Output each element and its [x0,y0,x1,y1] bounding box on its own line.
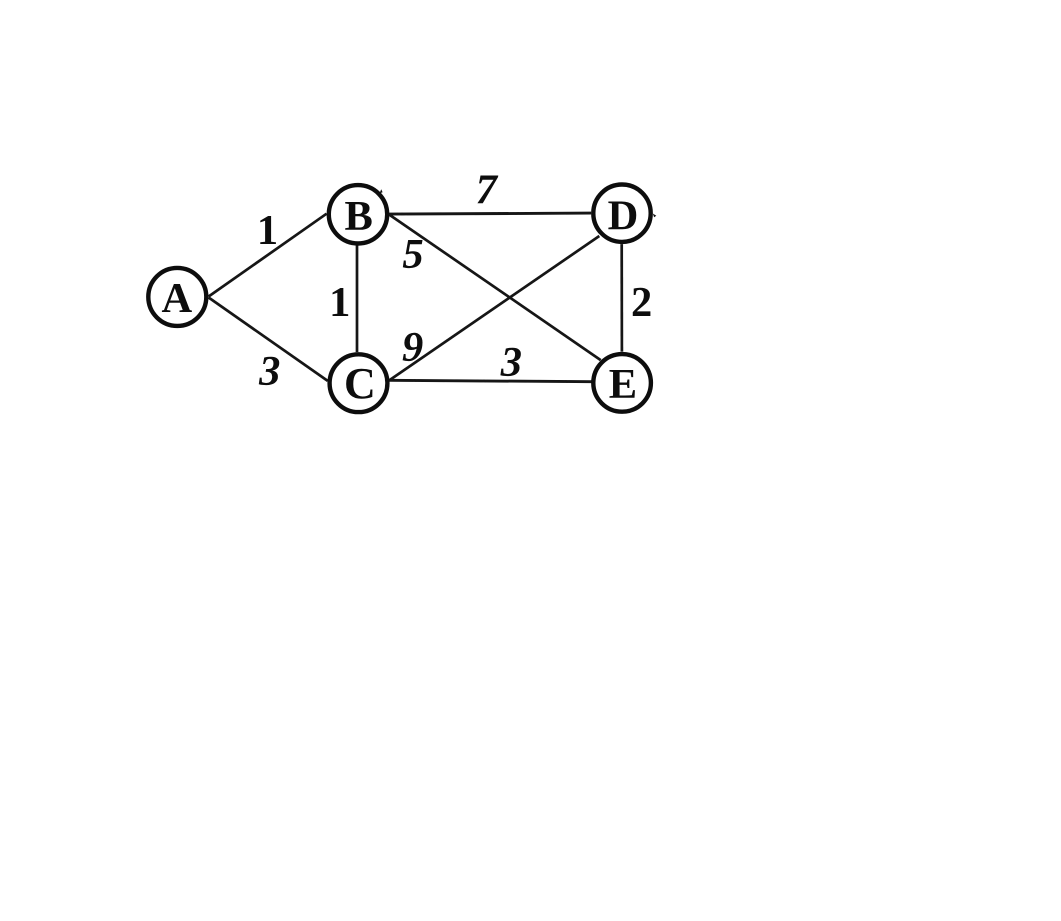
wire edge B-E [389,214,601,360]
wire edge C-E [389,380,591,381]
wire edge A-B [209,214,327,297]
svg-text:3: 3 [258,348,280,395]
wire edge A-C [209,298,328,381]
svg-text:B: B [345,193,373,240]
svg-text:1: 1 [257,207,278,254]
node C [330,354,388,412]
wire edge D-E [620,244,623,352]
svg-text:A: A [161,275,192,322]
node D [593,185,656,242]
node A [148,268,206,326]
wire edge B-C [356,245,359,352]
svg-text:C: C [344,359,376,408]
svg-text:3: 3 [500,339,522,386]
svg-text:E: E [609,361,637,408]
svg-text:2: 2 [631,279,652,326]
svg-text:5: 5 [402,231,423,278]
svg-text:1: 1 [329,279,350,326]
svg-text:7: 7 [476,167,499,214]
svg-text:9: 9 [402,324,423,371]
svg-text:D: D [608,193,639,240]
node E [593,354,651,412]
wire edge B-D [389,213,592,214]
wire edge C-D [389,236,599,380]
node B [329,185,387,243]
